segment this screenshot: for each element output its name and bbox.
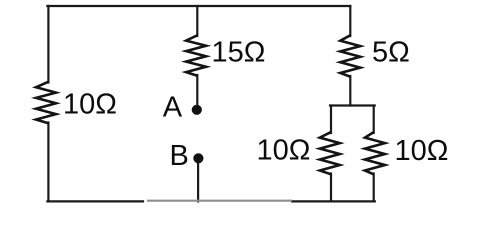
svg-text:B: B — [170, 140, 189, 172]
wire left branch lower — [47, 123, 49, 202]
resistor R2 15-ohm middle — [186, 35, 206, 75]
node A terminal dot — [192, 105, 202, 115]
svg-text:10Ω: 10Ω — [395, 135, 449, 167]
svg-text:A: A — [163, 92, 183, 124]
svg-text:10Ω: 10Ω — [63, 89, 117, 121]
wire top rail — [47, 5, 350, 7]
wire parallel right leg upper — [373, 106, 375, 134]
wire parallel top bar — [330, 104, 375, 106]
wire right branch upper — [349, 6, 351, 36]
wire left branch upper — [47, 6, 49, 83]
wire right branch from 5-ohm to parallel bar — [349, 76, 351, 106]
node B terminal dot — [193, 153, 203, 163]
resistor R1 10-ohm left — [36, 82, 56, 123]
resistor R3 5-ohm right — [340, 35, 360, 76]
wire bottom left segment — [47, 200, 143, 202]
resistor R5 10-ohm parallel right — [365, 132, 385, 174]
wire middle branch upper — [196, 6, 198, 36]
wire parallel left leg lower — [330, 174, 332, 202]
resistor R4 10-ohm parallel left — [320, 132, 340, 174]
wire parallel right leg lower — [373, 174, 375, 202]
svg-text:15Ω: 15Ω — [212, 37, 266, 69]
wire bottom gray segment — [147, 200, 292, 202]
wire middle branch from 15-ohm to node A — [196, 75, 198, 106]
svg-text:10Ω: 10Ω — [257, 135, 311, 167]
wire node B to bottom rail — [197, 160, 199, 201]
wire parallel left leg upper — [330, 106, 332, 134]
svg-text:5Ω: 5Ω — [372, 37, 410, 69]
wire bottom right segment — [292, 200, 375, 202]
